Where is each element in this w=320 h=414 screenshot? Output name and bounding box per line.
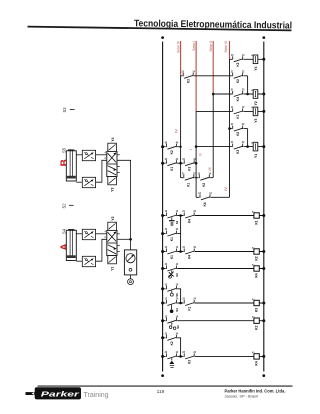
svg-text:14: 14 — [192, 70, 195, 73]
valve A solenoid Y1 box — [108, 256, 117, 264]
svg-text:41: 41 — [231, 141, 234, 144]
svg-text:13: 13 — [165, 284, 168, 286]
flow control valve A1 — [82, 229, 95, 239]
svg-text:24: 24 — [176, 332, 179, 335]
svg-text:K2: K2 — [202, 183, 206, 187]
Parker logo block — [35, 387, 81, 399]
node rung3 right rail — [262, 93, 265, 96]
svg-text:32: 32 — [242, 90, 245, 92]
svg-text:11: 11 — [231, 107, 234, 109]
relay coil K4 — [254, 266, 259, 271]
svg-text:31: 31 — [182, 247, 185, 249]
svg-text:IV: IV — [175, 129, 179, 133]
compressed air source — [130, 275, 132, 279]
svg-text:13: 13 — [181, 71, 184, 73]
svg-text:K1: K1 — [170, 237, 174, 241]
svg-text:K2: K2 — [170, 341, 174, 345]
node rung7 corner — [195, 162, 198, 165]
rung 7 wire cascade select — [163, 162, 197, 164]
cylinder B port wires — [76, 154, 82, 156]
wire vertical through rung8 crossing — [195, 176, 197, 180]
contact K2 rung2 — [232, 73, 244, 79]
left rail 24V — [162, 42, 164, 372]
rung 3 wire Y2 — [213, 93, 264, 95]
contact K2 rung8 — [199, 175, 211, 181]
svg-text:14: 14 — [209, 192, 212, 195]
svg-text:S3: S3 — [62, 107, 67, 113]
svg-text:14: 14 — [176, 246, 179, 249]
limit switch S2 contact — [166, 318, 178, 324]
svg-text:IV: IV — [224, 187, 228, 191]
valve B body 5/2 — [107, 151, 117, 176]
node rung6 right rail — [262, 145, 265, 148]
svg-text:21: 21 — [182, 173, 185, 175]
valve B solenoid Y4 box — [108, 143, 117, 151]
contact K4 rung9 — [199, 194, 211, 200]
svg-text:Parker: Parker — [41, 389, 81, 398]
svg-text:K4: K4 — [188, 255, 192, 259]
terminal dot bottom of right rail — [262, 374, 265, 377]
valve A solenoid Y2 box — [108, 222, 117, 230]
svg-text:K2: K2 — [170, 150, 174, 154]
solenoid Y4 — [253, 55, 258, 64]
svg-text:13: 13 — [165, 352, 168, 354]
contact K1 rung14 — [183, 300, 195, 306]
rung 4 wire Y3 — [196, 110, 264, 112]
svg-text:Training: Training — [84, 392, 109, 399]
rung 2 wire from bus IV — [181, 75, 248, 77]
node rung14 left rail — [161, 302, 164, 305]
hose B1 — [96, 154, 107, 156]
contact K4 rung10 — [183, 213, 195, 219]
contact K1 rung8 — [183, 175, 195, 181]
rung 15 wire — [163, 320, 264, 322]
svg-text:K3: K3 — [188, 360, 192, 364]
svg-text:Setor III: Setor III — [224, 41, 228, 53]
svg-text:K1: K1 — [188, 306, 192, 310]
node bus I rung6 — [195, 145, 198, 148]
svg-text:14: 14 — [209, 172, 212, 175]
rung 12 wire K4 — [163, 268, 264, 270]
limit switch S4 contact — [166, 300, 178, 306]
svg-text:Setor IV: Setor IV — [176, 40, 180, 53]
title: Tecnologia Eletropneumatica Industrial — [27, 17, 292, 32]
svg-text:Y3: Y3 — [254, 119, 258, 123]
svg-text:23: 23 — [182, 352, 185, 354]
svg-text:14: 14 — [242, 54, 245, 57]
node rung17 left rail — [161, 355, 164, 358]
cylinder B body — [66, 151, 76, 181]
svg-text:22: 22 — [193, 211, 196, 213]
hose B2 — [96, 160, 107, 182]
contact K2 rung5 — [232, 126, 244, 132]
node rung15 right rail — [262, 319, 265, 322]
rung 8 wire — [181, 177, 214, 179]
svg-text:K1: K1 — [186, 183, 190, 187]
cylinder A piston — [67, 255, 76, 258]
svg-text:K1: K1 — [236, 114, 240, 118]
hose A1 — [96, 233, 107, 235]
node supply junction — [129, 238, 132, 241]
rung 10 wire K1 start — [163, 215, 264, 217]
svg-text:Y2: Y2 — [254, 101, 258, 105]
contact K4 rung3 — [232, 91, 244, 97]
svg-text:13: 13 — [231, 55, 234, 57]
node rung6L left rail — [161, 145, 164, 148]
svg-text:13: 13 — [165, 264, 168, 266]
rung 6 wire Y1 — [196, 146, 264, 148]
solenoid Y3 — [253, 107, 258, 116]
svg-text:2: 2 — [105, 237, 107, 239]
contact K2 rung1 — [232, 56, 244, 62]
svg-text:4: 4 — [105, 230, 107, 233]
node rung14 right rail — [262, 302, 265, 305]
rung 5 wire — [230, 128, 248, 130]
terminal dot top of right rail — [262, 36, 265, 39]
svg-text:K3: K3 — [236, 150, 240, 154]
svg-text:S3: S3 — [175, 273, 179, 277]
node rung11 right rail — [262, 250, 265, 253]
svg-text:K2: K2 — [236, 79, 240, 83]
rung 13 wire S5 branch — [163, 289, 181, 303]
contact K3 rung2 — [182, 73, 194, 79]
pushbutton S0 — [166, 353, 178, 359]
svg-text:13: 13 — [198, 193, 201, 195]
node rung10 latch tap — [179, 214, 182, 217]
svg-text:44: 44 — [176, 158, 179, 161]
terminal dot top of left rail — [161, 36, 164, 39]
contact K1 rung4 — [232, 108, 244, 114]
cascade bus Setor II red — [212, 41, 214, 94]
svg-text:21: 21 — [182, 211, 185, 213]
node rung5 rung6 — [246, 145, 249, 148]
cascade bus Setor I red — [195, 41, 197, 111]
relay coil K2b — [254, 318, 259, 323]
rung 17 wire K4 end — [163, 355, 264, 357]
node rung17 tap — [179, 355, 182, 358]
node rung16 left rail — [161, 336, 164, 339]
svg-text:Y1: Y1 — [110, 266, 114, 270]
contact K2 rung6L — [166, 144, 178, 150]
svg-text:22: 22 — [242, 124, 245, 126]
node rung6L bus IV wire — [180, 146, 182, 148]
terminal dot bottom of left rail — [161, 374, 164, 377]
svg-text:K4: K4 — [188, 219, 192, 223]
svg-text:Setor II: Setor II — [209, 41, 213, 52]
svg-text:14: 14 — [176, 298, 179, 301]
contact K1 rung11 — [166, 249, 178, 255]
air service unit — [124, 250, 136, 275]
valve A exhaust stubs — [117, 233, 120, 235]
svg-text:S5: S5 — [175, 293, 179, 297]
svg-text:Y3: Y3 — [110, 187, 114, 191]
svg-text:Y4: Y4 — [111, 137, 115, 141]
svg-text:13: 13 — [165, 247, 168, 249]
contact K4 rung11 — [183, 249, 195, 255]
svg-text:14: 14 — [176, 283, 179, 286]
svg-text:III: III — [208, 167, 212, 170]
svg-text:Jacareí, SP - Brasil: Jacareí, SP - Brasil — [225, 393, 258, 398]
svg-text:K1: K1 — [170, 167, 174, 171]
limit switch S5 contact — [166, 286, 178, 292]
rung 11 wire K2 — [163, 251, 264, 253]
svg-text:S2: S2 — [176, 325, 180, 329]
svg-text:K2: K2 — [236, 132, 240, 136]
limit switch S3 contact — [166, 266, 178, 272]
svg-text:K3: K3 — [188, 167, 192, 171]
svg-text:13: 13 — [165, 316, 168, 318]
node rung10 right rail — [262, 214, 265, 217]
svg-text:119: 119 — [157, 389, 165, 395]
svg-text:K4: K4 — [254, 361, 258, 365]
node rung14 tap — [179, 302, 182, 305]
svg-text:21: 21 — [231, 124, 234, 126]
footer rule sloped — [38, 385, 293, 387]
svg-text:Y4: Y4 — [254, 66, 258, 70]
cascade bus Setor III red — [229, 41, 231, 59]
flow control valve A2 — [82, 256, 95, 266]
svg-text:K2: K2 — [236, 62, 240, 66]
valve A body 5/2 — [107, 230, 117, 255]
node latch left rail — [161, 232, 164, 235]
rung 16 wire S0 branch — [163, 338, 181, 357]
cascade bus Setor IV red — [180, 41, 182, 76]
contact K3 rung7 — [183, 160, 195, 166]
flow control valve B1 — [82, 150, 95, 160]
svg-text:II: II — [199, 153, 203, 155]
svg-text:K4: K4 — [236, 97, 240, 101]
contact K1 latch — [166, 231, 178, 237]
solenoid Y2 — [253, 90, 258, 99]
node rung10 left rail — [161, 214, 164, 217]
svg-text:S1: S1 — [175, 220, 179, 224]
contact K2 rung16 — [166, 335, 178, 341]
svg-text:21: 21 — [231, 71, 234, 73]
contact K3 rung17 — [183, 353, 195, 359]
node bus III rung5 — [228, 127, 231, 130]
svg-text:12: 12 — [242, 107, 245, 109]
node rung15 left rail — [161, 319, 164, 322]
svg-text:K1: K1 — [170, 255, 174, 259]
svg-text:S2: S2 — [62, 203, 67, 209]
cylinder A rod — [69, 229, 71, 255]
cylinder A body — [66, 230, 76, 260]
svg-text:I: I — [189, 149, 193, 150]
node bus II rung3 — [212, 93, 215, 96]
node rung2 rung3 — [246, 93, 249, 96]
svg-text:K4: K4 — [254, 273, 258, 277]
svg-text:31: 31 — [231, 90, 234, 92]
node rung17 right rail — [262, 355, 265, 358]
svg-text:K3: K3 — [254, 308, 258, 312]
svg-text:K4: K4 — [203, 202, 207, 206]
wire rung5 drop — [247, 129, 249, 147]
relay coil K1 — [254, 213, 259, 218]
rung 9 wire — [196, 196, 229, 198]
svg-text:14: 14 — [176, 263, 179, 266]
node rung7 bus IV wire — [179, 162, 182, 165]
svg-text:31: 31 — [182, 159, 185, 161]
svg-text:24: 24 — [193, 351, 196, 354]
solenoid Y1 — [253, 142, 258, 151]
cylinder B piston — [67, 176, 76, 179]
wire bus I continuation — [195, 111, 197, 197]
svg-text:13: 13 — [165, 211, 168, 213]
svg-text:14: 14 — [176, 210, 179, 213]
wire rung2 drop — [247, 76, 249, 94]
flow control valve B2 — [82, 177, 95, 187]
svg-text:Y1: Y1 — [254, 154, 258, 158]
right rail 0V — [263, 42, 265, 372]
pushbutton S1 — [166, 213, 178, 219]
svg-text:K1: K1 — [254, 220, 258, 224]
svg-text:K2: K2 — [254, 256, 258, 260]
svg-text:Y2: Y2 — [111, 216, 115, 220]
node rung11 tap — [179, 250, 182, 253]
cylinder B rod — [69, 150, 71, 176]
svg-text:43: 43 — [165, 158, 168, 161]
rung 6L wire rail to bus IV wire — [163, 146, 181, 148]
supply drop — [130, 239, 132, 250]
wire bus III continuation — [229, 59, 231, 197]
wire latch vertical — [180, 216, 182, 252]
svg-text:32: 32 — [193, 247, 196, 249]
svg-text:K2: K2 — [254, 325, 258, 329]
valve B exhaust stubs — [117, 154, 120, 156]
svg-text:43: 43 — [165, 228, 168, 231]
svg-text:23: 23 — [165, 333, 168, 335]
node rung11 left rail — [161, 250, 164, 253]
svg-text:14: 14 — [176, 351, 179, 354]
svg-text:43: 43 — [165, 141, 168, 144]
svg-text:Setor I: Setor I — [192, 41, 196, 51]
svg-text:S4: S4 — [175, 308, 179, 312]
contact K3 rung6 — [232, 144, 244, 150]
supply wire from valve A — [117, 238, 131, 240]
wire bus II continuation — [212, 94, 214, 178]
relay coil K2 — [254, 249, 259, 254]
svg-text:22: 22 — [242, 71, 245, 73]
hose A2 — [96, 239, 107, 261]
node rung7 left rail — [161, 162, 164, 165]
svg-text:42: 42 — [242, 141, 245, 144]
rung 1 wire Y4 — [230, 58, 264, 60]
svg-text:K3: K3 — [187, 79, 191, 83]
svg-text:44: 44 — [176, 228, 179, 231]
node rung12 right rail — [262, 267, 265, 270]
relay coil K3 — [254, 300, 259, 305]
wire bus IV continuation — [180, 76, 182, 178]
contact K1 rung7 — [166, 160, 178, 166]
cylinder A port wires — [76, 233, 82, 235]
svg-text:23: 23 — [182, 299, 185, 301]
valve B solenoid Y3 box — [108, 177, 117, 185]
node rung12 left rail — [161, 267, 164, 270]
svg-text:13: 13 — [198, 173, 201, 175]
svg-text:2: 2 — [105, 158, 107, 160]
node rung1 right rail — [262, 58, 265, 61]
rung 14 wire K3 — [163, 302, 264, 304]
svg-text:14: 14 — [176, 315, 179, 318]
node rung4 right rail — [262, 110, 265, 113]
latch branch wire — [163, 233, 181, 235]
svg-text:4: 4 — [105, 151, 107, 154]
svg-text:13: 13 — [165, 299, 168, 301]
node rung13 left rail — [161, 287, 164, 290]
supply wire from valve B — [117, 160, 131, 239]
svg-text:24: 24 — [193, 298, 196, 301]
svg-text:44: 44 — [176, 141, 179, 144]
relay coil K4 end — [254, 354, 259, 359]
